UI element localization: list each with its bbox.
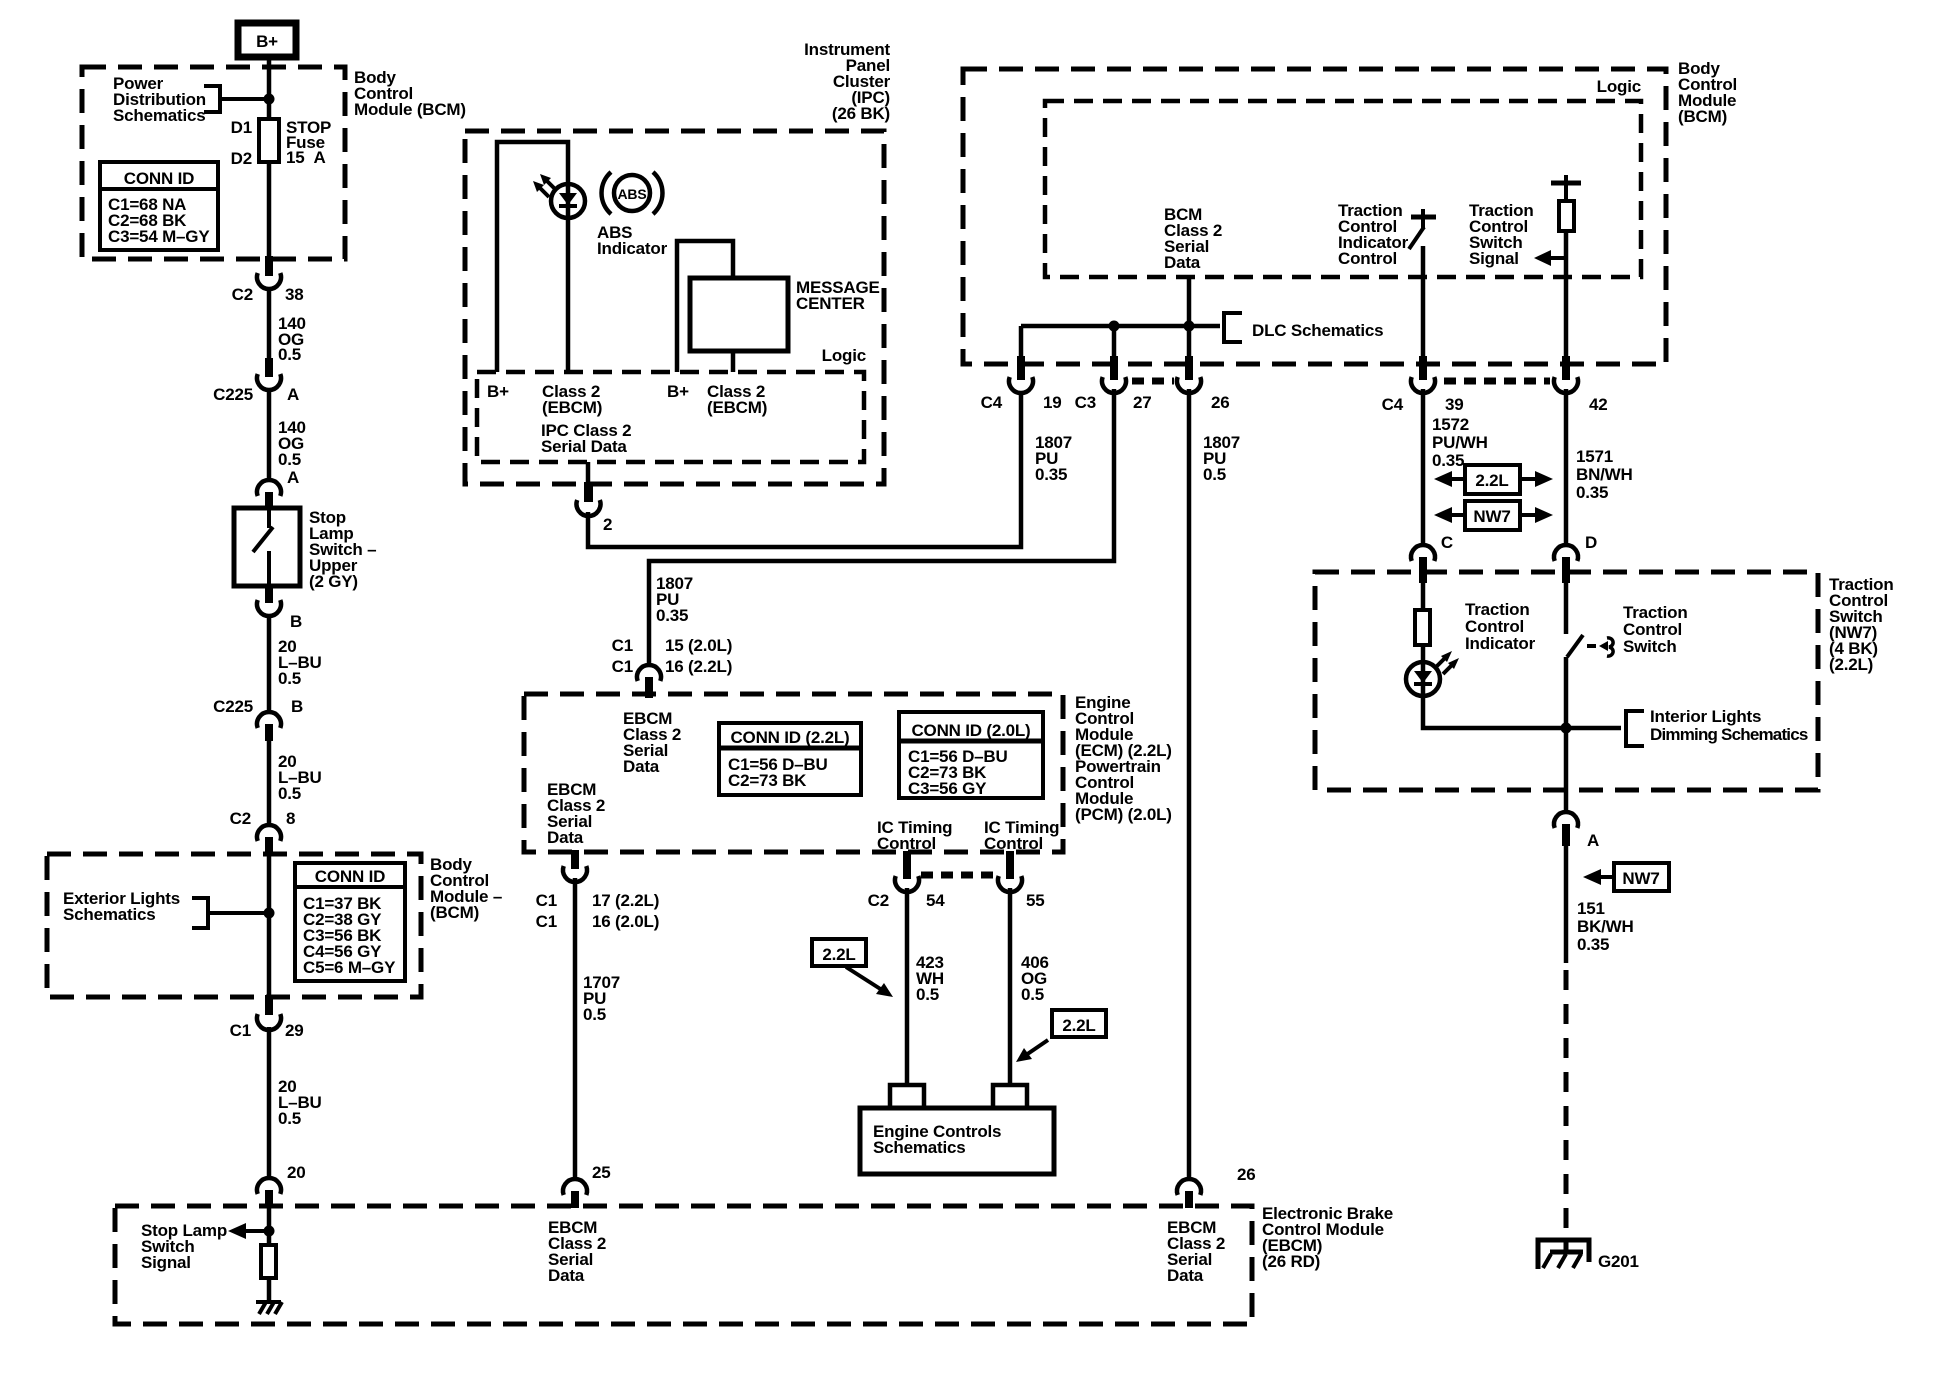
svg-text:B: B [291,697,303,716]
svg-text:16 (2.2L): 16 (2.2L) [665,657,732,676]
label BCM Class 2 Serial Data [1164,205,1222,272]
wire 26 to DLC [1187,277,1192,360]
svg-text:CONN ID (2.0L): CONN ID (2.0L) [911,721,1030,740]
wire 19 stub [1019,326,1024,360]
svg-text:CONN ID (2.2L): CONN ID (2.2L) [730,728,849,747]
svg-text:0.35: 0.35 [1576,483,1608,502]
label Body Control Module (BCM) [354,68,466,119]
label Traction Control Indicator Control [1338,201,1409,268]
svg-text:54: 54 [926,891,945,910]
CONN ID table BCM [295,863,405,981]
BCM power distribution dashed box [82,67,345,259]
label ABS Indicator [597,223,668,258]
CONN ID (2.2L) table [719,723,861,795]
svg-text:Dimming Schematics: Dimming Schematics [1650,725,1808,744]
svg-text:Interior Lights: Interior Lights [1650,707,1761,726]
svg-text:Schematics: Schematics [873,1138,966,1157]
resistor stop lamp signal [261,1245,276,1278]
svg-text:55: 55 [1026,891,1045,910]
svg-text:(26 RD): (26 RD) [1262,1252,1320,1271]
svg-text:C1: C1 [536,891,557,910]
stop lamp switch box [234,508,300,586]
label 423 WH 0.5 [916,953,944,1004]
bracket DLC Schematics [1224,311,1242,344]
svg-text:BK/WH: BK/WH [1577,917,1634,936]
wire pin2 to pin19 [588,392,1021,547]
svg-text:C225: C225 [213,697,253,716]
label Body Control Module - (BCM) [430,855,502,922]
label EBCM Class 2 Serial Data (exit) [547,780,605,847]
svg-text:(PCM) (2.0L): (PCM) (2.0L) [1075,805,1172,824]
NW7 callout both wires [1434,501,1553,530]
label Instrument Panel Cluster (IPC) (26 BK) [804,40,890,123]
svg-text:19: 19 [1043,393,1062,412]
LED emission arrows [533,174,556,197]
svg-text:0.5: 0.5 [916,985,939,1004]
svg-text:1571: 1571 [1576,447,1613,466]
svg-text:0.5: 0.5 [583,1005,606,1024]
connector C2 pin 38 [232,256,304,304]
label Class 2 (EBCM) [542,382,602,417]
svg-text:CENTER: CENTER [796,294,865,313]
svg-text:Signal: Signal [1469,249,1519,268]
svg-text:29: 29 [285,1021,304,1040]
wire [267,389,272,480]
label EBCM Class 2 Serial Data (pin26) [1167,1218,1225,1285]
wire to ground [267,1278,272,1303]
arrow Stop Lamp Switch Signal [228,1223,269,1239]
svg-text:C1: C1 [612,657,633,676]
svg-text:0.5: 0.5 [278,1109,301,1128]
svg-text:0.35: 0.35 [1035,465,1067,484]
svg-text:151: 151 [1577,899,1605,918]
wire 27 stub [1112,326,1117,360]
svg-text:NW7: NW7 [1622,869,1659,888]
label 1571 BN/WH 0.35 [1576,447,1633,502]
pull-up bar with tick [1551,175,1581,183]
label EBCM Class 2 Serial Data (entry) [623,709,681,776]
svg-text:ABS: ABS [618,186,647,202]
svg-text:Schematics: Schematics [63,905,156,924]
wire bracket to junction [220,97,269,101]
LED emission arrows [1436,651,1459,674]
label 151 BK/WH 0.35 [1577,899,1634,954]
svg-text:2: 2 [603,515,612,534]
svg-text:PU/WH: PU/WH [1432,433,1488,452]
arrow switch signal [1534,250,1566,266]
label IPC Class 2 Serial Data [541,421,631,456]
traction control switch dashed box [1315,572,1818,790]
BCM logic dashed box [963,69,1666,364]
connector A [1554,812,1599,850]
svg-text:C4: C4 [981,393,1003,412]
svg-text:D2: D2 [231,149,252,168]
svg-text:Module (BCM): Module (BCM) [354,100,466,119]
wire bracket to junction [208,911,269,915]
label Power Distribution Schematics [113,74,206,125]
wire 54 [905,888,910,1085]
label MESSAGE CENTER [796,278,880,313]
svg-text:CONN ID: CONN ID [124,169,194,188]
connector C [1411,533,1453,583]
svg-text:15 (2.0L): 15 (2.0L) [665,636,732,655]
NW7 callout [1583,863,1669,891]
stop lamp switch contacts [253,508,273,586]
svg-text:(EBCM): (EBCM) [707,398,767,417]
IPC dashed box [465,131,884,484]
svg-text:0.5: 0.5 [1021,985,1044,1004]
wire label 140 OG 0.5 [278,314,306,364]
svg-text:Indicator: Indicator [597,239,668,258]
ground chassis [256,1302,282,1314]
label IC Timing Control (54) [877,818,952,853]
bracket Power Distribution [204,84,220,114]
svg-text:0.5: 0.5 [1203,465,1226,484]
EBCM bottom dashed box [115,1206,1252,1324]
wire label 20 L-BU 0.5 [278,637,322,688]
svg-text:Data: Data [548,1266,585,1285]
svg-text:2.2L: 2.2L [1062,1016,1095,1035]
wire B+ to BCM box [267,57,272,119]
label Body Control Module (BCM) [1678,59,1737,126]
svg-text:Data: Data [547,828,584,847]
svg-text:A: A [287,468,299,487]
wire indicator control down [1421,246,1426,364]
svg-text:2.2L: 2.2L [1475,471,1508,490]
svg-text:26: 26 [1211,393,1230,412]
svg-text:0.5: 0.5 [278,669,301,688]
label 1572 PU/WH 0.35 [1432,415,1488,470]
fork terminal 55 [993,1085,1027,1110]
svg-text:0.5: 0.5 [278,784,301,803]
connector strip dots [921,872,996,879]
svg-text:(EBCM): (EBCM) [542,398,602,417]
svg-text:Control: Control [1338,249,1397,268]
EBCM exit connector C1 [536,850,660,931]
connector C4 pin 19 [981,356,1062,412]
svg-text:42: 42 [1589,395,1608,414]
ABS indicator LED [551,184,585,218]
connector pin 55 [998,851,1045,910]
svg-text:C1: C1 [612,636,633,655]
svg-text:Logic: Logic [822,346,866,365]
CONN ID table [100,162,218,250]
svg-text:1572: 1572 [1432,415,1469,434]
bracket Exterior Lights [192,896,208,930]
connector pin 25 [563,1163,611,1208]
wire through box [267,854,272,997]
connector pin 42 [1554,356,1608,414]
svg-text:0.5: 0.5 [278,450,301,469]
EBCM dashed box [524,694,1063,852]
label Exterior Lights Schematics [63,889,180,924]
svg-text:(2.2L): (2.2L) [1829,655,1873,674]
svg-text:A: A [287,385,299,404]
label 1807 PU 0.35 (pin19) [1035,433,1072,484]
wire [267,740,272,826]
svg-text:C4: C4 [1382,395,1404,414]
svg-text:(2 GY): (2 GY) [309,572,358,591]
DLC schematics wire [1021,324,1220,329]
svg-text:G201: G201 [1598,1252,1639,1271]
svg-text:B: B [290,612,302,631]
connector C3 pin 27 [1075,356,1152,412]
wire [267,1027,272,1179]
wire [267,615,272,713]
connector B below switch [257,584,302,631]
2.2L callout both wires [1434,465,1553,494]
wire B+ loop to ABS LED [497,142,568,372]
connector C225 A [213,358,299,404]
svg-text:A: A [1587,831,1599,850]
IPC logic dashed box [477,372,864,462]
2.2L callout (55) [1016,1010,1106,1062]
wire 42 down [1564,389,1569,546]
svg-text:C1: C1 [230,1021,251,1040]
wire switch down [1564,657,1569,813]
connector C4 pin 39 [1382,356,1464,414]
svg-text:Logic: Logic [1597,77,1641,96]
svg-text:Schematics: Schematics [113,106,206,125]
svg-text:C: C [1441,533,1453,552]
svg-text:39: 39 [1445,395,1464,414]
svg-text:Control: Control [984,834,1043,853]
wire switch signal down [1564,231,1569,364]
svg-text:C3=56 GY: C3=56 GY [908,779,987,798]
connector C2 pin 8 [230,809,296,856]
label 1707 PU 0.5 [583,973,620,1024]
svg-text:Switch: Switch [1623,637,1677,656]
label Traction Control Switch (NW7) (4 BK) (2.2L) [1829,575,1894,674]
svg-text:15 A: 15 A [286,148,326,167]
svg-text:C2: C2 [232,285,253,304]
driver transistor symbol [1409,209,1436,249]
label Engine Controls Schematics [873,1122,1001,1157]
connector A into stop lamp switch [257,480,281,510]
wire solid to splice [1564,844,1569,963]
svg-text:C2: C2 [230,809,251,828]
svg-text:Data: Data [1164,253,1201,272]
pull-up resistor [1559,183,1574,231]
svg-text:2.2L: 2.2L [822,945,855,964]
wire into EBCM [267,1208,272,1245]
CONN ID (2.0L) table [899,712,1043,798]
junction node [264,908,275,919]
junction node [1561,723,1572,734]
label Traction Control Indicator [1465,600,1536,653]
svg-text:0.35: 0.35 [656,606,688,625]
wire label 140 OG 0.5 [278,418,306,469]
svg-text:BN/WH: BN/WH [1576,465,1633,484]
svg-text:C2=73 BK: C2=73 BK [728,771,807,790]
svg-text:NW7: NW7 [1473,507,1510,526]
traction switch contacts [1566,583,1613,657]
2.2L callout (54) [812,939,893,997]
junction node [264,1226,275,1237]
svg-text:C5=6 M–GY: C5=6 M–GY [303,958,396,977]
wire 55 [1008,888,1013,1085]
label Traction Control Switch [1623,603,1688,656]
wire 1707 [573,878,578,1180]
Engine Controls Schematics box [860,1108,1054,1174]
wire label 20 L-BU 0.5 [278,1077,322,1128]
wire LED to dimming junction [1423,696,1621,728]
svg-text:(26 BK): (26 BK) [832,104,890,123]
svg-text:17 (2.2L): 17 (2.2L) [592,891,659,910]
svg-text:C3=54 M–GY: C3=54 M–GY [108,227,210,246]
wire 39 down [1421,389,1426,546]
svg-text:0.35: 0.35 [1577,935,1609,954]
label 1807 PU 0.35 (ebcm) [656,574,693,625]
svg-text:16 (2.0L): 16 (2.0L) [592,912,659,931]
svg-text:CONN ID: CONN ID [315,867,385,886]
label Electronic Brake Control Module (EBCM) (26 RD) [1262,1204,1393,1271]
connector C225 B [213,697,303,741]
label EBCM Class 2 Serial Data (pin25) [548,1218,606,1285]
svg-text:Signal: Signal [141,1253,191,1272]
svg-text:0.35: 0.35 [1432,451,1464,470]
svg-text:DLC Schematics: DLC Schematics [1252,321,1383,340]
svg-text:8: 8 [286,809,295,828]
label 1807 PU 0.5 (pin26) [1203,433,1240,484]
svg-text:0.5: 0.5 [278,345,301,364]
connector into EBCM [637,665,661,698]
ground G201 [1538,1240,1589,1269]
svg-text:B+: B+ [487,382,509,401]
wire label 20 L-BU 0.5 [278,752,322,803]
connector strip dots [1444,378,1550,385]
svg-text:C1: C1 [536,912,557,931]
traction LED [1406,662,1440,696]
fork terminal 54 [890,1085,924,1110]
connector pin 26 [1177,356,1230,412]
junction node [1109,321,1120,332]
connector pin 2 [577,462,613,534]
svg-text:38: 38 [285,285,304,304]
svg-text:Indicator: Indicator [1465,634,1536,653]
svg-text:20: 20 [287,1163,306,1182]
svg-text:C3: C3 [1075,393,1096,412]
label IC Timing Control (55) [984,818,1059,853]
svg-text:Serial Data: Serial Data [541,437,627,456]
MESSAGE CENTER box [690,278,788,351]
BCM inner logic dashed box [1045,101,1641,277]
label Interior Lights Dimming Schematics [1650,707,1808,744]
connector pin 26 (bottom) [1177,1165,1256,1208]
connector D [1554,533,1597,583]
wire pin27 to EBCM class2 [649,389,1114,666]
svg-text:B+: B+ [667,382,689,401]
svg-text:Data: Data [623,757,660,776]
svg-text:26: 26 [1237,1165,1256,1184]
label Traction Control Switch Signal [1469,201,1534,268]
svg-text:D1: D1 [231,118,252,137]
label Stop Lamp Switch Signal [141,1221,227,1272]
label 406 OG 0.5 [1021,953,1049,1004]
svg-text:Control: Control [877,834,936,853]
svg-text:B+: B+ [256,32,278,51]
connector strip dots [1132,378,1174,385]
connector C2 pin 54 [868,851,946,910]
label C1 15 (2.0L) / C1 16 (2.2L) [612,636,733,676]
label Stop Lamp Switch - Upper (2 GY) [309,508,376,591]
wire B+ to message center [677,241,733,372]
svg-text:27: 27 [1133,393,1152,412]
label Engine Control Module (ECM) (2.2L) Powertrain Control Module (PCM) (2.0L) [1075,693,1172,824]
label Class 2 (EBCM) [707,382,767,417]
svg-text:25: 25 [592,1163,611,1182]
svg-text:Data: Data [1167,1266,1204,1285]
B+ power terminal [238,23,296,57]
label STOP Fuse 15 A [286,118,331,167]
junction node [264,94,275,105]
bracket Interior Lights [1626,709,1644,748]
connector C1 pin 29 [230,995,304,1040]
svg-text:C225: C225 [213,385,253,404]
resistor traction indicator [1415,583,1430,696]
svg-text:D: D [1585,533,1597,552]
wire 26 down to EBCM [1187,389,1192,1180]
svg-text:C2: C2 [868,891,889,910]
wire [267,288,272,358]
svg-text:(BCM): (BCM) [1678,107,1727,126]
svg-text:(BCM): (BCM) [430,903,479,922]
ABS telltale symbol [602,172,663,214]
junction node [1184,321,1195,332]
connector pin 20 [257,1163,306,1208]
wire dashed to ground [1564,970,1569,1252]
fuse STOP 15A [259,119,279,259]
BCM exterior lights dashed box [47,854,421,997]
